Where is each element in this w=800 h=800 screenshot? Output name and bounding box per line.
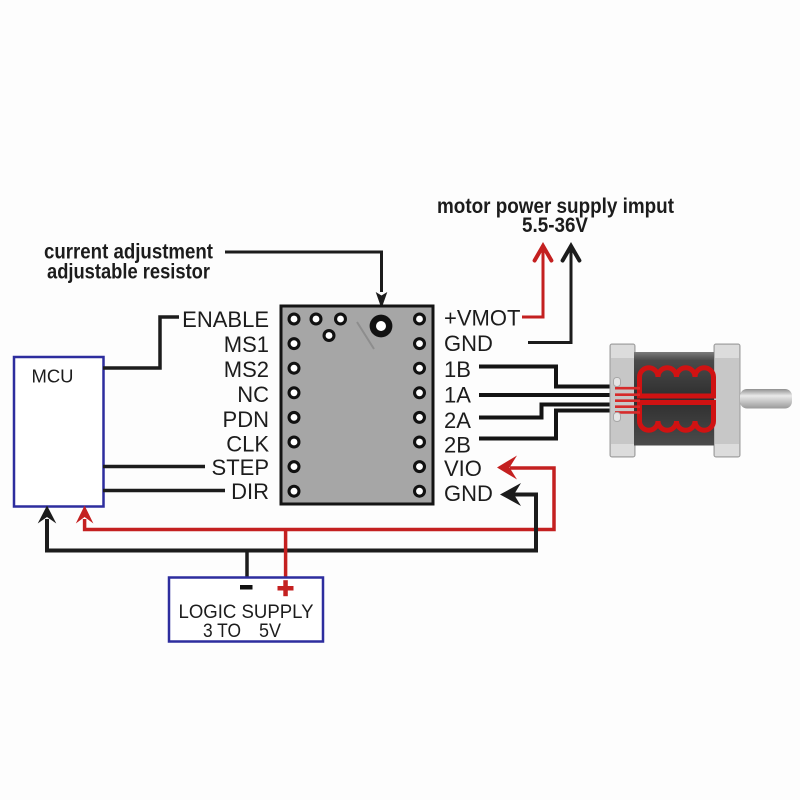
motor right flange [714, 344, 740, 457]
wire: black branch to - terminal of logic supply [245, 551, 249, 579]
svg-text:LOGIC SUPPLY: LOGIC SUPPLY [179, 601, 314, 623]
wire: GND bottom loop (black, arrow left into GND, arrow up into MCU) [38, 483, 536, 551]
svg-text:3 TO: 3 TO [203, 620, 241, 642]
svg-text:STEP: STEP [212, 455, 269, 480]
minus terminal label [240, 585, 253, 590]
svg-text:MS1: MS1 [224, 332, 269, 357]
svg-text:MCU: MCU [32, 367, 74, 387]
svg-text:1B: 1B [444, 357, 471, 382]
motor coil bottom (red winding) [640, 403, 714, 431]
chip right pin holes [413, 313, 426, 498]
svg-text:DIR: DIR [231, 479, 269, 504]
svg-text:GND: GND [444, 481, 493, 506]
logic supply box [169, 578, 323, 643]
motor coil top (red winding) [640, 368, 714, 396]
left pin labels [182, 307, 269, 504]
svg-text:2A: 2A [444, 408, 471, 433]
chip top holes [310, 313, 348, 343]
svg-text:CLK: CLK [226, 432, 269, 457]
svg-text:MS2: MS2 [224, 357, 269, 382]
chip left pin holes [288, 313, 301, 498]
wire: STEP to MCU [103, 465, 205, 469]
potentiometer (current adjust) on chip [357, 315, 392, 349]
motor body [634, 352, 714, 446]
chip U1 driver board [281, 306, 433, 504]
svg-text:NC: NC [237, 382, 269, 407]
right pin labels [444, 306, 520, 507]
svg-text:1A: 1A [444, 383, 471, 408]
wire: 1A to motor [479, 393, 617, 397]
svg-text:adjustable resistor: adjustable resistor [47, 261, 210, 284]
label: motor power supply imput 5.5-36V [437, 195, 674, 237]
svg-text:+VMOT: +VMOT [444, 306, 520, 331]
svg-text:5V: 5V [259, 620, 281, 642]
svg-text:VIO: VIO [444, 456, 482, 481]
motor left flange [610, 344, 635, 457]
motor lead wires (red stripes) [615, 388, 640, 412]
wire: 2A to motor [479, 405, 617, 418]
svg-text:PDN: PDN [223, 407, 269, 432]
stepper motor [610, 344, 792, 457]
motor flange slots [614, 378, 621, 387]
svg-text:ENABLE: ENABLE [182, 307, 269, 332]
wire: 2B to motor [479, 411, 617, 439]
wire: GND to motor power supply (black, arrow up) [528, 246, 579, 343]
label: current adjustment adjustable resistor [44, 241, 213, 284]
svg-text:2B: 2B [444, 433, 471, 458]
wire: 1B to motor [479, 367, 616, 387]
wire: current adjustment pointer to potentiometer [225, 252, 387, 309]
svg-text:5.5-36V: 5.5-36V [522, 214, 588, 237]
plus terminal label (red) [278, 580, 294, 596]
wire: ENABLE to MCU [103, 317, 179, 368]
svg-text:GND: GND [444, 331, 493, 356]
wire: red branch to + terminal of logic supply [284, 530, 288, 579]
wire: VIO from logic supply + (red, arrow left into VIO) [76, 456, 554, 530]
wire: DIR to MCU [103, 489, 225, 493]
MCU box [14, 357, 104, 507]
wire: +VMOT to motor power supply (red, arrow up) [522, 246, 551, 317]
